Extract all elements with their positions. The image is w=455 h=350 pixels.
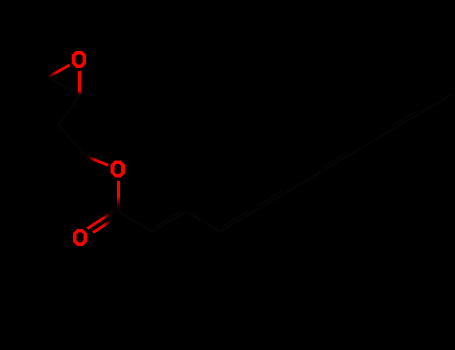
bond CH2 to ester O (red fade) (86, 156, 109, 165)
bond epoxide O to bottom ring C (red fade) (78, 71, 81, 95)
wire: chain C6-C7 single bond (288, 172, 322, 192)
wire: ring C to linker kink (59, 95, 81, 126)
carbonyl C=O double bond line 1 (red fade) (87, 209, 117, 229)
wire: chain C5=C6 double bond inner line (257, 191, 282, 206)
bond epoxide O to left ring C (red fade) (48, 65, 70, 77)
wire: chain C2=C3 double bond main line (152, 212, 186, 232)
wire: chain C3-C4 single bond (186, 212, 220, 232)
wire: chain C7=C8 double bond inner line (324, 151, 349, 166)
ester oxygen O label (111, 161, 125, 178)
wire: chain C1-C2 single bond (119, 212, 153, 232)
wire: chain C8-C9 single bond (355, 132, 389, 152)
wire: chain C2=C3 double bond inner line (155, 211, 180, 226)
wire: linker kink to CH2 (59, 125, 86, 156)
wire: chain C4=C5 double bond inner line (223, 211, 248, 226)
epoxide oxygen O label (72, 51, 86, 68)
carbonyl C=O double bond line 2 (red fade) (93, 220, 113, 233)
wire: epoxide ring C-C base (48, 77, 80, 95)
wire: chain C9=C10 double bond main line (389, 112, 423, 132)
wire: chain C4=C5 double bond main line (220, 212, 254, 232)
bond ester O to carbonyl C (red fade) (117, 181, 120, 212)
wire: chain C10-C11 tail bond (423, 95, 452, 112)
wire: chain C9=C10 double bond inner line (392, 111, 417, 126)
wire: chain C7=C8 double bond main line (321, 152, 355, 172)
carbonyl oxygen O label (73, 229, 87, 246)
wire: chain C5=C6 double bond main line (254, 192, 288, 212)
